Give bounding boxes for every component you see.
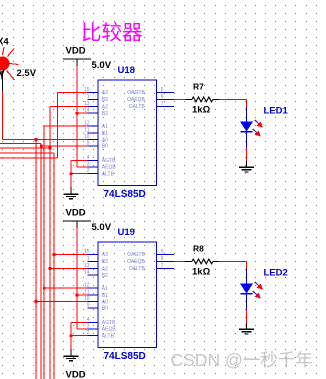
svg-text:5.0V: 5.0V [92,222,112,233]
svg-text:7: 7 [161,101,164,107]
svg-text:B3: B3 [102,259,108,265]
svg-text:B0: B0 [102,306,108,312]
svg-text:1: 1 [87,256,90,262]
svg-text:B3: B3 [102,97,108,103]
svg-text:A1: A1 [102,124,108,130]
svg-text:LED2: LED2 [264,268,288,279]
svg-text:OAEQB: OAEQB [127,259,145,265]
svg-text:X4: X4 [0,37,9,48]
svg-text:VDD: VDD [66,208,86,219]
svg-text:A0: A0 [102,137,108,143]
svg-text:AGTB: AGTB [102,158,116,164]
svg-text:U19: U19 [118,227,135,238]
svg-text:B2: B2 [102,273,108,279]
svg-text:OAGTB: OAGTB [127,90,145,96]
svg-text:A3: A3 [102,90,108,96]
svg-text:A3: A3 [102,252,108,258]
svg-text:6: 6 [161,94,164,100]
svg-text:9: 9 [87,302,90,308]
svg-text:OAGTB: OAGTB [127,252,145,258]
svg-text:OALTB: OALTB [129,266,146,272]
svg-text:U18: U18 [118,65,135,76]
svg-text:5: 5 [161,249,164,255]
svg-text:比较器: 比较器 [81,22,143,45]
svg-text:B0: B0 [102,144,108,150]
svg-text:1kΩ: 1kΩ [192,104,211,115]
svg-text:1: 1 [87,94,90,100]
svg-text:6: 6 [161,256,164,262]
svg-text:A1: A1 [102,286,108,292]
svg-text:A0: A0 [102,299,108,305]
svg-text:R8: R8 [193,244,204,254]
svg-text:B1: B1 [102,293,108,299]
svg-text:A2: A2 [102,104,108,110]
svg-text:14: 14 [84,270,90,276]
svg-text:ALTB: ALTB [102,334,115,340]
svg-text:7: 7 [161,263,164,269]
svg-text:2.5V: 2.5V [17,68,37,79]
svg-text:CSDN @一秒千年: CSDN @一秒千年 [171,350,313,370]
svg-text:74LS85D: 74LS85D [104,351,146,362]
svg-text:OAEQB: OAEQB [127,97,145,103]
svg-text:A2: A2 [102,266,108,272]
svg-text:AEQB: AEQB [102,327,117,333]
svg-text:VDD: VDD [66,370,86,379]
svg-text:B1: B1 [102,131,108,137]
svg-text:R7: R7 [193,82,204,92]
svg-text:VDD: VDD [66,46,86,57]
svg-text:OALTB: OALTB [129,104,146,110]
svg-text:5.0V: 5.0V [92,60,112,71]
svg-text:LED1: LED1 [264,106,289,117]
svg-text:AGTB: AGTB [102,320,116,326]
svg-text:1kΩ: 1kΩ [192,266,211,277]
svg-text:5: 5 [161,87,164,93]
svg-text:11: 11 [84,128,89,134]
svg-text:74LS85D: 74LS85D [104,189,146,200]
svg-text:B2: B2 [102,111,108,117]
svg-text:AEQB: AEQB [102,165,117,171]
svg-text:ALTB: ALTB [102,172,115,178]
